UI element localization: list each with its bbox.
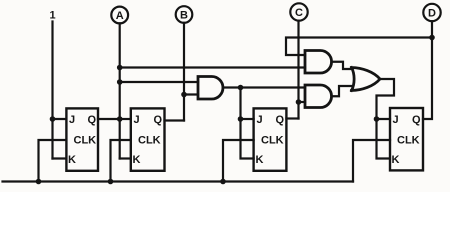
svg-text:D: D [428,8,436,20]
flip-flop FF1 box [66,108,98,170]
flip-flop FF3 labels [256,114,285,166]
wire A column [119,23,121,158]
terminal C [290,3,307,20]
wire A to AND2 upper input [120,81,198,83]
node junction Q1-A [117,116,123,122]
wire J1 input [53,118,67,120]
svg-text:B: B [180,10,188,22]
wire AND1 output jog [332,62,352,69]
svg-text:J: J [69,114,75,126]
wire OR output staircase [377,79,395,159]
flip-flop FF2 box [131,108,165,170]
wire C column [297,21,299,119]
wire B column [183,23,185,121]
svg-text:K: K [68,154,76,166]
node junction B-AND2 [181,92,187,98]
wire B to AND2 lower input [184,93,198,95]
wire CLK3 [223,140,254,182]
wire J2 input [120,118,131,120]
wire J3 input [241,118,254,120]
or-gate U4 [352,68,381,91]
wire AND3 output jog [332,86,352,96]
svg-text:Q: Q [88,114,97,126]
flip-flop FF4 labels [392,114,422,166]
svg-text:CLK: CLK [138,135,161,147]
node junction CLK2-bus [108,179,114,185]
wire K1 input [53,157,67,159]
svg-text:J: J [257,114,263,126]
wire AND2 output [223,86,305,88]
wire C to AND3 lower input [299,101,306,103]
node junction D-feedback [429,35,435,41]
and-gate U3 (bottom right, A·B·C) [305,85,332,108]
svg-text:A: A [116,10,124,22]
and-gate U1 (top right, D·A) [305,51,332,74]
wire CLK2 [111,140,131,182]
svg-text:J: J [393,114,399,126]
wire CLK4 [353,140,390,182]
wire clock bus [3,180,354,182]
wire logic-1 vertical [51,22,53,159]
svg-text:Q: Q [412,114,421,126]
node junction A-AND1 [117,65,123,71]
terminal B [176,6,193,23]
node junction 1-J1 [50,116,56,122]
svg-text:K: K [133,154,141,166]
wire J3/K3 column [241,88,254,159]
wire A to AND1 lower input [120,66,305,68]
svg-text:K: K [392,154,400,166]
node junction AND2-out [238,85,244,91]
flip-flop FF2 labels [133,114,163,166]
svg-text:CLK: CLK [74,135,97,147]
wire Q1 output [98,118,120,120]
node junction CLK1-bus [36,179,42,185]
and-gate U2 (middle, A·B) [198,77,223,100]
node junction C-AND3 [296,99,302,105]
node junction CLK3-bus [220,179,226,185]
terminal A [111,7,128,24]
node junction J4 [374,116,380,122]
wire Q2 output [165,119,185,121]
node junction A-AND2 [117,79,123,85]
flip-flop FF1 labels [68,114,97,166]
svg-text:J: J [134,114,140,126]
flip-flop FF4 box [390,108,423,170]
wire K2 input [120,157,131,159]
wire D column / Q4 riser [423,21,432,119]
svg-text:C: C [295,7,303,19]
svg-text:Q: Q [276,114,285,126]
svg-text:1: 1 [49,10,55,22]
node junction J3 [238,116,244,122]
terminal D [423,4,440,21]
svg-text:CLK: CLK [397,135,420,147]
flip-flop FF3 box [254,108,287,170]
wire J4 input [377,118,391,120]
svg-text:K: K [256,154,264,166]
wire D feedback top [286,38,432,56]
svg-text:Q: Q [154,114,163,126]
svg-text:CLK: CLK [261,135,284,147]
wire Q3 output [286,117,298,119]
wire CLK1 [39,140,67,182]
